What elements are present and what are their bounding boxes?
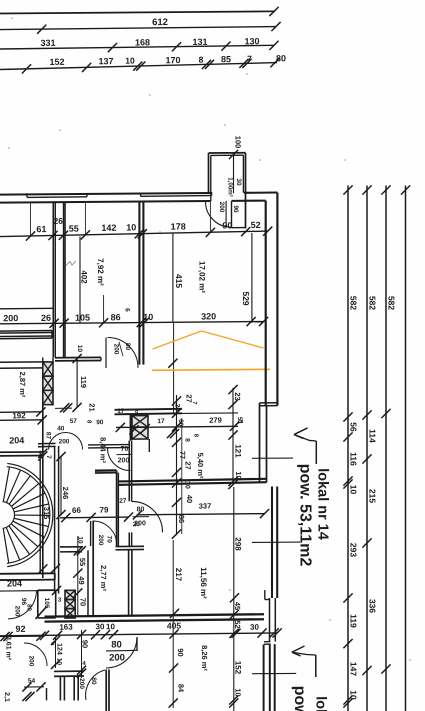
svg-text:87: 87 <box>45 432 52 440</box>
svg-text:lokal nr 15: lokal nr 15 <box>313 696 329 711</box>
svg-text:3,61 m²: 3,61 m² <box>5 636 12 661</box>
svg-text:5: 5 <box>236 420 243 424</box>
svg-text:80: 80 <box>111 639 122 650</box>
svg-text:6: 6 <box>124 308 131 312</box>
svg-text:30: 30 <box>250 623 259 632</box>
svg-text:200: 200 <box>78 678 85 689</box>
svg-text:80: 80 <box>124 343 131 351</box>
svg-text:7: 7 <box>247 54 252 64</box>
svg-text:293: 293 <box>348 543 358 558</box>
svg-text:612: 612 <box>152 17 168 28</box>
svg-text:55: 55 <box>78 558 87 566</box>
svg-text:1,00m²: 1,00m² <box>226 177 233 197</box>
svg-text:pow. 53,11m2: pow. 53,11m2 <box>291 686 308 711</box>
svg-text:57: 57 <box>70 418 78 425</box>
svg-text:84: 84 <box>177 684 186 693</box>
svg-text:2,77 m²: 2,77 m² <box>99 565 108 591</box>
svg-text:200: 200 <box>59 438 70 445</box>
svg-text:30: 30 <box>96 622 105 631</box>
svg-text:70: 70 <box>121 446 129 453</box>
svg-text:114: 114 <box>367 429 377 443</box>
svg-text:10: 10 <box>125 56 135 66</box>
svg-text:200: 200 <box>13 606 20 617</box>
svg-text:582: 582 <box>348 296 358 311</box>
svg-text:7,92 m²: 7,92 m² <box>96 258 105 286</box>
svg-text:8,26 m²: 8,26 m² <box>200 645 209 671</box>
svg-text:137: 137 <box>98 56 113 66</box>
svg-text:2,1: 2,1 <box>3 692 10 702</box>
svg-text:200: 200 <box>109 652 125 663</box>
svg-text:8: 8 <box>199 55 204 65</box>
svg-text:405: 405 <box>167 621 181 631</box>
svg-text:152: 152 <box>234 661 243 675</box>
svg-text:100: 100 <box>234 136 243 149</box>
svg-text:90: 90 <box>176 648 185 656</box>
svg-text:92: 92 <box>15 624 25 634</box>
svg-text:192: 192 <box>12 411 26 420</box>
svg-text:10: 10 <box>348 485 358 495</box>
svg-text:142: 142 <box>101 223 116 233</box>
svg-text:246: 246 <box>61 487 70 500</box>
svg-text:178: 178 <box>171 221 186 231</box>
svg-text:7: 7 <box>45 455 52 459</box>
svg-text:10: 10 <box>76 345 83 353</box>
svg-text:298: 298 <box>233 537 242 551</box>
svg-text:8,44 m²: 8,44 m² <box>99 437 108 463</box>
svg-text:30: 30 <box>235 178 242 186</box>
svg-text:131: 131 <box>192 37 207 47</box>
svg-text:90: 90 <box>232 205 239 213</box>
svg-text:336: 336 <box>367 599 377 614</box>
svg-text:17: 17 <box>157 418 165 425</box>
svg-text:152: 152 <box>49 57 64 67</box>
svg-text:200: 200 <box>118 457 130 464</box>
svg-text:10: 10 <box>143 312 153 322</box>
svg-text:331: 331 <box>40 38 55 48</box>
svg-text:200: 200 <box>112 344 119 355</box>
svg-text:121: 121 <box>234 444 243 458</box>
svg-text:320: 320 <box>201 311 216 321</box>
svg-text:23: 23 <box>233 392 242 400</box>
svg-text:337: 337 <box>199 501 212 510</box>
svg-text:10: 10 <box>234 688 243 696</box>
svg-text:116: 116 <box>348 452 358 466</box>
svg-text:lokal nr 14: lokal nr 14 <box>315 468 331 540</box>
svg-text:124: 124 <box>55 643 62 655</box>
svg-text:10: 10 <box>183 481 190 489</box>
svg-text:52: 52 <box>251 220 261 230</box>
svg-text:200: 200 <box>97 535 104 546</box>
svg-text:204: 204 <box>9 435 24 445</box>
svg-text:90: 90 <box>222 220 232 230</box>
svg-text:52: 52 <box>233 620 242 628</box>
svg-text:415: 415 <box>174 274 184 289</box>
svg-text:279: 279 <box>209 416 222 425</box>
svg-text:119: 119 <box>348 614 358 628</box>
svg-text:200: 200 <box>3 313 18 323</box>
svg-text:8: 8 <box>184 438 191 442</box>
svg-text:105: 105 <box>75 313 90 323</box>
svg-text:26: 26 <box>41 313 51 323</box>
svg-text:10: 10 <box>126 222 136 232</box>
svg-text:582: 582 <box>367 296 377 311</box>
svg-text:90: 90 <box>96 419 104 426</box>
svg-text:66: 66 <box>72 506 81 515</box>
svg-text:315: 315 <box>42 507 51 520</box>
svg-text:529: 529 <box>241 291 251 306</box>
svg-text:40: 40 <box>57 425 65 432</box>
svg-text:86: 86 <box>111 312 121 322</box>
svg-text:582: 582 <box>386 296 396 311</box>
svg-text:85: 85 <box>221 54 231 64</box>
svg-text:2,87 m²: 2,87 m² <box>18 371 27 397</box>
svg-text:80: 80 <box>276 53 286 63</box>
svg-text:27: 27 <box>119 498 127 505</box>
svg-text:163: 163 <box>59 623 73 632</box>
svg-text:77: 77 <box>178 451 187 459</box>
svg-text:17,02 m²: 17,02 m² <box>197 261 206 293</box>
svg-text:168: 168 <box>135 37 150 47</box>
svg-text:90: 90 <box>81 640 90 648</box>
svg-text:402: 402 <box>80 270 89 284</box>
svg-text:20: 20 <box>133 521 141 528</box>
svg-text:49: 49 <box>77 576 86 584</box>
svg-text:215: 215 <box>367 489 377 504</box>
svg-text:217: 217 <box>174 568 183 582</box>
svg-text:130: 130 <box>244 36 259 46</box>
svg-text:200: 200 <box>218 202 225 213</box>
svg-text:170: 170 <box>165 55 180 65</box>
svg-text:27: 27 <box>183 461 192 469</box>
svg-text:21: 21 <box>88 403 97 411</box>
svg-text:10: 10 <box>348 690 358 700</box>
svg-text:10: 10 <box>106 622 115 631</box>
svg-text:5,40 m²: 5,40 m² <box>196 453 205 479</box>
svg-text:61: 61 <box>36 224 46 234</box>
svg-text:147: 147 <box>348 662 358 677</box>
svg-text:45: 45 <box>233 602 242 610</box>
svg-text:119: 119 <box>79 376 88 388</box>
svg-text:11,56 m²: 11,56 m² <box>199 567 208 599</box>
svg-text:200: 200 <box>28 656 35 667</box>
svg-text:pow. 53,11m2: pow. 53,11m2 <box>296 464 313 567</box>
svg-text:17: 17 <box>117 408 125 415</box>
svg-text:27: 27 <box>184 394 193 402</box>
svg-text:55: 55 <box>69 224 79 234</box>
svg-text:70: 70 <box>106 536 113 544</box>
svg-text:79: 79 <box>100 505 109 514</box>
svg-text:70: 70 <box>79 598 88 606</box>
svg-text:54: 54 <box>28 678 36 685</box>
svg-text:56: 56 <box>348 422 358 432</box>
svg-text:80: 80 <box>25 604 32 612</box>
svg-text:40: 40 <box>185 495 194 503</box>
